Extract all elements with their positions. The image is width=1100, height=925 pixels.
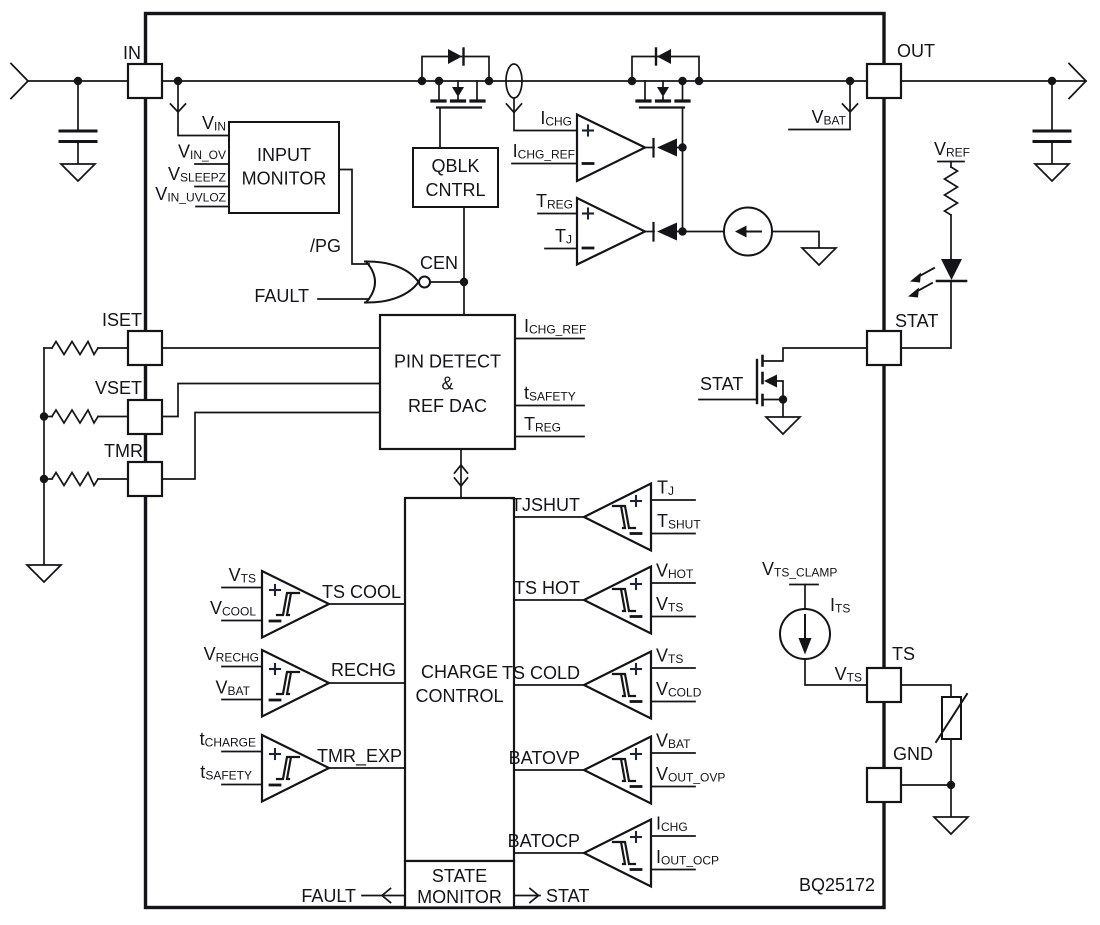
resistor R1 (ISET)	[44, 347, 52, 349]
wire: Q3 source to ground	[763, 400, 784, 418]
wire: U3 (TS COOL) minus input	[222, 620, 262, 622]
U1 plus input mark	[583, 126, 593, 136]
current sense element (oval)	[506, 64, 522, 98]
transistor Q2 channel stubs	[644, 81, 646, 100]
comparator U2 (TREG/TJ)	[577, 198, 645, 265]
label block STATE MONITOR	[417, 866, 502, 907]
wire: I1 to ground	[772, 232, 819, 249]
block: QBLK CNTRL	[413, 148, 498, 207]
node CEN junction	[460, 278, 468, 286]
block: PIN DETECT & REF DAC	[380, 315, 515, 449]
wire/underline VIN_UVLOZ threshold	[196, 206, 229, 208]
transistor Q1 gate plate	[437, 106, 481, 108]
transistor Q3 (STAT open-drain) gate wire	[699, 399, 757, 401]
wire: U8 (TS COLD) plus input	[651, 667, 695, 669]
svg-text:tSAFETY: tSAFETY	[200, 762, 252, 783]
output load arrow	[1069, 64, 1086, 99]
wire: U5 (TMR_EXP) minus input	[222, 784, 262, 786]
wire: U7 (TS HOT) output to CHARGE CONTROL	[514, 599, 584, 601]
svg-text:OUT: OUT	[897, 41, 935, 61]
transistor Q3 body arrow	[764, 375, 777, 388]
comparator U1 (ICHG)	[577, 115, 645, 182]
wire: resistor common leg to ground	[43, 348, 45, 565]
wire: QBLK to PIN DETECT (through CEN)	[463, 207, 465, 315]
wire: thermistor to GND pin	[950, 739, 952, 785]
label block CHARGE CONTROL	[415, 662, 503, 706]
transistor Q2 body diode loop wire	[632, 57, 699, 82]
svg-text:ICHG_REF: ICHG_REF	[513, 141, 575, 162]
ground (thermistor)	[934, 817, 968, 834]
svg-text:BQ25172: BQ25172	[799, 875, 875, 895]
arrowhead VIN down	[171, 104, 186, 112]
svg-text:MONITOR: MONITOR	[242, 169, 327, 189]
svg-text:STAT: STAT	[700, 374, 743, 394]
wire: FAULT input to NOR gate	[318, 298, 369, 300]
svg-text:STATE: STATE	[432, 866, 487, 886]
transistor Q1 source/drain bars	[432, 99, 484, 102]
pin OUT	[867, 64, 901, 98]
wire: U10 (BATOCP) plus input	[651, 835, 695, 837]
arrowhead VBAT down	[843, 104, 858, 112]
gate G1 NOR (CE logic)	[366, 262, 375, 303]
node: rail junction VBAT	[846, 77, 854, 85]
wire: U4 (RECHG) plus input	[222, 666, 262, 668]
transistor Q3 channel segments	[761, 356, 764, 405]
svg-text:TJSHUT: TJSHUT	[511, 495, 580, 515]
wire: VSET pin to PIN DETECT	[162, 384, 380, 417]
wire: I2 to TS pin (VTS node)	[805, 659, 867, 685]
wire: U5 (TMR_EXP) plus input	[222, 751, 262, 753]
ground (set resistors)	[27, 565, 61, 582]
ground (output cap)	[1035, 164, 1069, 181]
node: OUT rail junction to C2	[1048, 77, 1056, 85]
wire: VIN sense drop	[178, 81, 229, 136]
svg-text:QBLK: QBLK	[431, 156, 479, 176]
ground (current source I1)	[802, 248, 836, 265]
comparator U7 (TS HOT)	[584, 567, 651, 634]
wire/underline TJ to U2 minus	[545, 248, 577, 250]
wire: U6 (TJSHUT) plus input	[651, 499, 695, 501]
comparator U9 (BATOVP)	[584, 737, 651, 804]
svg-text:TJ: TJ	[657, 478, 674, 499]
svg-text:VBAT: VBAT	[812, 107, 847, 128]
wire: U7 (TS HOT) minus input	[651, 616, 695, 618]
wire/underline ICHG_REF to U1 minus	[512, 163, 577, 165]
svg-text:TS: TS	[892, 644, 915, 664]
current source I2 (ITS)	[780, 609, 830, 659]
label block QBLK CNTRL	[425, 156, 485, 200]
svg-text:CONTROL: CONTROL	[415, 686, 503, 706]
comparator U3 (TS COOL)	[262, 571, 329, 638]
comparator U10 (BATOCP)	[584, 820, 651, 887]
node: thermistor/GND junction	[947, 781, 955, 789]
wire/underline TREG output	[516, 436, 584, 438]
comparator U6 (TJSHUT)	[584, 484, 651, 551]
pin IN	[128, 64, 162, 98]
wire: STAT output with arrowhead	[514, 895, 540, 897]
svg-text:IN: IN	[123, 43, 141, 63]
wire: U3 (TS COOL) plus input	[222, 587, 262, 589]
svg-text:&: &	[441, 374, 453, 394]
svg-text:TSHUT: TSHUT	[657, 511, 701, 532]
U2 plus input mark	[583, 209, 593, 219]
capacitor C2 lower wire	[1051, 142, 1053, 165]
ground (Q3 source)	[766, 417, 800, 434]
svg-text:GND: GND	[893, 744, 933, 764]
wire: Q2 gate to clamp node	[682, 108, 684, 232]
transistor Q3 gate bar	[756, 360, 758, 403]
svg-text:TS HOT: TS HOT	[514, 578, 580, 598]
comparator U5 (TMR_EXP)	[262, 735, 329, 802]
wire: U8 (TS COLD) minus input	[651, 701, 695, 703]
diode D4 (U2 output clamp)	[645, 231, 654, 233]
node: Q3 source junction	[779, 395, 787, 403]
wire: U4 (RECHG) minus input	[222, 699, 262, 701]
label block PIN DETECT & REF DAC	[394, 352, 501, 417]
wire: input rail IN to OUT	[28, 80, 1086, 82]
wire: U9 (BATOVP) minus input	[651, 786, 695, 788]
capacitor C2 plates	[1034, 131, 1070, 142]
svg-text:RECHG: RECHG	[331, 660, 396, 680]
wire: U9 (BATOVP) output to CHARGE CONTROL	[514, 769, 584, 771]
U1 minus input mark	[583, 162, 593, 165]
svg-text:VOUT_OVP: VOUT_OVP	[656, 764, 725, 785]
pin ISET	[128, 331, 162, 365]
wire: VBAT sense drop	[789, 81, 850, 130]
transistor Q2 body arrow	[662, 81, 664, 87]
transistor Q1 channel stubs	[438, 81, 440, 100]
wire: FAULT output with arrowhead	[362, 895, 405, 897]
wire: U5 (TMR_EXP) output to CHARGE CONTROL	[329, 767, 405, 769]
block: INPUT MONITOR	[229, 122, 339, 213]
svg-text:ITS: ITS	[830, 595, 850, 616]
wire/underline tSAFETY output	[516, 405, 584, 407]
svg-text:VTS_CLAMP: VTS_CLAMP	[762, 559, 837, 580]
pin VSET	[128, 400, 162, 434]
transistor Q1 body arrow	[457, 81, 459, 87]
diode D2 (Q2 parallel)	[657, 49, 671, 64]
block: CHARGE CONTROL	[405, 498, 514, 861]
wire/underline VIN_OV threshold	[195, 163, 229, 165]
svg-text:TREG: TREG	[524, 414, 561, 435]
wire: U8 (TS COLD) output to CHARGE CONTROL	[514, 684, 584, 686]
node: R3 junction	[40, 475, 48, 483]
comparator U8 (TS COLD)	[584, 652, 651, 719]
svg-text:TS COLD: TS COLD	[502, 663, 580, 683]
svg-text:VIN_OV: VIN_OV	[178, 142, 226, 163]
wire: U3 (TS COOL) output to CHARGE CONTROL	[329, 603, 405, 605]
wire: PIN DETECT to CHARGE CONTROL (bidirectional)	[460, 449, 462, 498]
current source I1	[724, 208, 772, 256]
transistor Q2 gate plate	[640, 106, 684, 108]
wire/underline VREF feed	[938, 161, 964, 163]
svg-text:TJ: TJ	[555, 226, 572, 247]
wire/underline VTS_CLAMP feed	[790, 584, 818, 586]
diode D3 (U1 output clamp)	[645, 147, 654, 149]
wire: TMR pin to PIN DETECT	[162, 413, 380, 480]
capacitor C1 lower wire	[77, 142, 79, 165]
svg-text:VHOT: VHOT	[656, 561, 694, 582]
arrowhead ICHG down	[507, 104, 522, 113]
wire: Q1 gate to QBLK	[439, 108, 441, 149]
svg-text:VIN: VIN	[202, 113, 226, 134]
svg-text:VCOLD: VCOLD	[656, 679, 702, 700]
svg-text:VTS: VTS	[229, 565, 256, 586]
svg-text:TREG: TREG	[536, 191, 573, 212]
pin TS	[867, 668, 901, 702]
node: rail junctions at Q1	[418, 77, 426, 85]
svg-text:ICHG: ICHG	[540, 108, 572, 129]
svg-text:MONITOR: MONITOR	[417, 887, 502, 907]
wire/underline TREG to U2 plus	[538, 213, 577, 215]
capacitor C1 (input) wire	[77, 81, 79, 129]
node: rail junctions at Q2	[628, 77, 636, 85]
svg-text:TMR_EXP: TMR_EXP	[317, 746, 402, 767]
wire: TS pin to thermistor	[901, 685, 951, 697]
diode D1 (Q1 parallel)	[448, 49, 462, 64]
node: R2 junction	[40, 412, 48, 420]
svg-text:VTS: VTS	[656, 594, 683, 615]
pin TMR	[128, 462, 162, 496]
svg-text:VTS: VTS	[656, 646, 683, 667]
svg-text:/PG: /PG	[310, 236, 341, 256]
capacitor C1 plates	[60, 131, 96, 142]
node: clamp junction at D4	[678, 227, 686, 235]
svg-text:FAULT: FAULT	[254, 286, 309, 306]
svg-text:ISET: ISET	[102, 310, 142, 330]
svg-text:CNTRL: CNTRL	[425, 180, 485, 200]
wire: U4 (RECHG) output to CHARGE CONTROL	[329, 682, 405, 684]
resistor R4 (LED series from VREF)	[945, 167, 958, 215]
wire: ICHG sense to comparator U1	[514, 98, 577, 131]
svg-text:PIN DETECT: PIN DETECT	[394, 352, 501, 372]
resistor R3 (TMR)	[44, 478, 52, 480]
pin STAT	[867, 331, 901, 365]
wire: NOR output to CEN node	[430, 281, 464, 283]
ground (input cap)	[61, 164, 95, 181]
svg-text:VBAT: VBAT	[216, 678, 251, 699]
svg-text:REF DAC: REF DAC	[408, 396, 487, 416]
wire/underline VSLEEPZ threshold	[195, 186, 229, 188]
svg-text:INPUT: INPUT	[257, 145, 311, 165]
transistor Q2 source/drain bars	[637, 99, 689, 102]
svg-text:ICHG: ICHG	[656, 814, 688, 835]
svg-text:FAULT: FAULT	[301, 886, 356, 906]
IC boundary frame BQ25172	[146, 14, 885, 908]
pin GND	[867, 768, 901, 802]
arrowhead up (bus)	[455, 465, 468, 473]
wire: U9 (BATOVP) plus input	[651, 752, 695, 754]
wire: U6 (TJSHUT) minus input	[651, 533, 695, 535]
LED D5 (STAT indicator)	[941, 259, 962, 280]
svg-text:IOUT_OCP: IOUT_OCP	[656, 847, 719, 868]
comparator U4 (RECHG)	[262, 650, 329, 717]
svg-text:TS COOL: TS COOL	[322, 582, 401, 602]
wire: GND pin to junction	[901, 784, 951, 786]
svg-text:VTS: VTS	[835, 664, 862, 685]
thermistor RT1	[942, 697, 961, 739]
wire: Q3 drain to STAT pin	[763, 348, 868, 361]
wire: U6 (TJSHUT) output to CHARGE CONTROL	[514, 516, 584, 518]
svg-text:VSLEEPZ: VSLEEPZ	[168, 164, 226, 185]
svg-text:VBAT: VBAT	[656, 731, 691, 752]
svg-text:VREF: VREF	[934, 139, 970, 160]
svg-text:ICHG_REF: ICHG_REF	[524, 316, 586, 337]
wire: clamp node to current source I1	[683, 231, 725, 233]
block: STATE MONITOR	[405, 861, 514, 908]
wire: U10 (BATOCP) minus input	[651, 869, 695, 871]
input source arrow	[11, 64, 28, 99]
svg-text:CEN: CEN	[420, 253, 458, 273]
LED light arrows	[915, 268, 934, 293]
node: rail junction VIN	[174, 77, 182, 85]
wire/underline ICHG_REF output	[516, 338, 584, 340]
transistor Q1 body diode loop wire	[422, 57, 489, 82]
svg-text:VSET: VSET	[95, 378, 142, 398]
node: clamp junction at D3	[678, 143, 686, 151]
svg-text:TMR: TMR	[104, 441, 143, 461]
U2 minus input mark	[583, 247, 593, 250]
svg-text:BATOCP: BATOCP	[508, 831, 580, 851]
arrowhead down (bus)	[455, 478, 468, 486]
wire: /PG from INPUT MONITOR to NOR gate	[339, 170, 369, 265]
wire: U7 (TS HOT) plus input	[651, 582, 695, 584]
svg-text:STAT: STAT	[546, 886, 589, 906]
wire: U10 (BATOCP) output to CHARGE CONTROL	[514, 852, 584, 854]
svg-text:STAT: STAT	[895, 311, 938, 331]
resistor R2 (VSET)	[44, 416, 52, 418]
node: IN rail junction to C1	[74, 77, 82, 85]
svg-text:tSAFETY: tSAFETY	[524, 383, 576, 404]
svg-text:VRECHG: VRECHG	[204, 644, 259, 665]
wire: LED cathode to STAT pin	[901, 281, 951, 348]
wire: ISET pin to PIN DETECT	[162, 347, 380, 349]
svg-text:tCHARGE: tCHARGE	[200, 729, 256, 750]
svg-text:CHARGE: CHARGE	[421, 662, 498, 682]
label block INPUT MONITOR	[242, 145, 327, 189]
svg-text:VCOOL: VCOOL	[210, 598, 256, 619]
wire: junction to ground	[950, 785, 952, 817]
svg-text:BATOVP: BATOVP	[509, 748, 580, 768]
capacitor C2 (output) wire	[1051, 81, 1053, 129]
